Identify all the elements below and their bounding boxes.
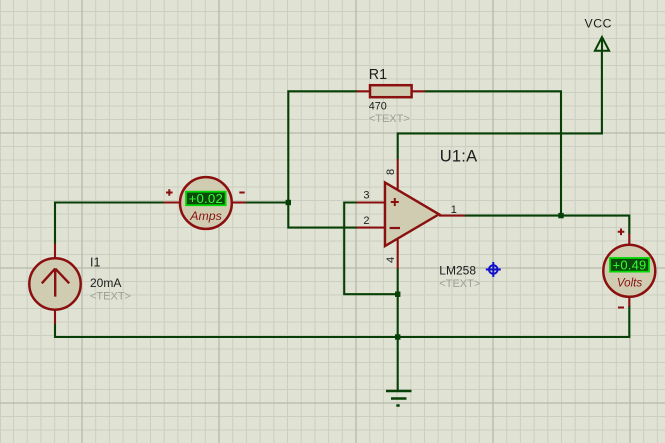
svg-text:<TEXT>: <TEXT> — [439, 278, 480, 290]
svg-text:Amps: Amps — [189, 209, 221, 223]
svg-text:470: 470 — [369, 100, 387, 112]
wire VCC to op-amp pin 8 — [398, 51, 602, 160]
wire output to voltmeter — [465, 216, 630, 234]
svg-text:Volts: Volts — [617, 276, 643, 289]
svg-text:1: 1 — [451, 204, 457, 216]
svg-text:<TEXT>: <TEXT> — [90, 291, 131, 303]
wire op-amp pin 4 to ground — [397, 268, 399, 391]
svg-text:+0.49: +0.49 — [613, 257, 647, 272]
svg-text:I1: I1 — [90, 256, 100, 270]
op-amp pin 3 (non-inverting) — [357, 190, 385, 203]
svg-text:<TEXT>: <TEXT> — [369, 113, 410, 125]
ground symbol — [386, 391, 412, 406]
wire R1 to output node — [425, 91, 562, 216]
wire node A to R1 — [288, 91, 357, 203]
svg-text:VCC: VCC — [585, 17, 613, 31]
svg-text:8: 8 — [385, 169, 397, 175]
node A junction — [286, 200, 291, 205]
op-amp pin 2 (inverting) — [357, 215, 385, 228]
wire ammeter to node A — [245, 201, 289, 203]
wire voltmeter bottom to rail — [628, 306, 630, 339]
svg-text:R1: R1 — [369, 67, 387, 83]
op-amp pin 4 (V-) — [385, 238, 398, 269]
svg-text:U1:A: U1:A — [440, 148, 477, 166]
ammeter — [164, 177, 246, 229]
junction pin3/pin4 ground node — [395, 292, 400, 297]
current source I1 — [29, 244, 80, 325]
ground rail wire — [55, 336, 629, 338]
svg-text:+0.02: +0.02 — [189, 191, 223, 206]
junction ground rail — [395, 334, 400, 339]
wire op-amp pin 3 to ground junction — [344, 203, 398, 295]
wire I1 top to ammeter — [55, 203, 164, 245]
wire I1 bottom to rail — [54, 323, 56, 338]
svg-text:4: 4 — [385, 257, 397, 263]
resistor R1 — [357, 85, 426, 97]
svg-text:2: 2 — [363, 215, 369, 227]
voltmeter — [603, 229, 655, 308]
wire node A to op-amp pin 2 — [288, 202, 357, 228]
op-amp pin 1 (output) — [439, 204, 465, 216]
junction output node / R1 — [558, 213, 563, 218]
marker U1 origin crosshair — [486, 262, 501, 277]
svg-text:3: 3 — [363, 190, 369, 202]
power VCC symbol — [585, 17, 613, 52]
op-amp U1 triangle body — [385, 183, 439, 247]
op-amp pin 8 (V+) — [385, 159, 398, 191]
svg-text:LM258: LM258 — [439, 264, 476, 278]
svg-text:20mA: 20mA — [90, 276, 121, 290]
